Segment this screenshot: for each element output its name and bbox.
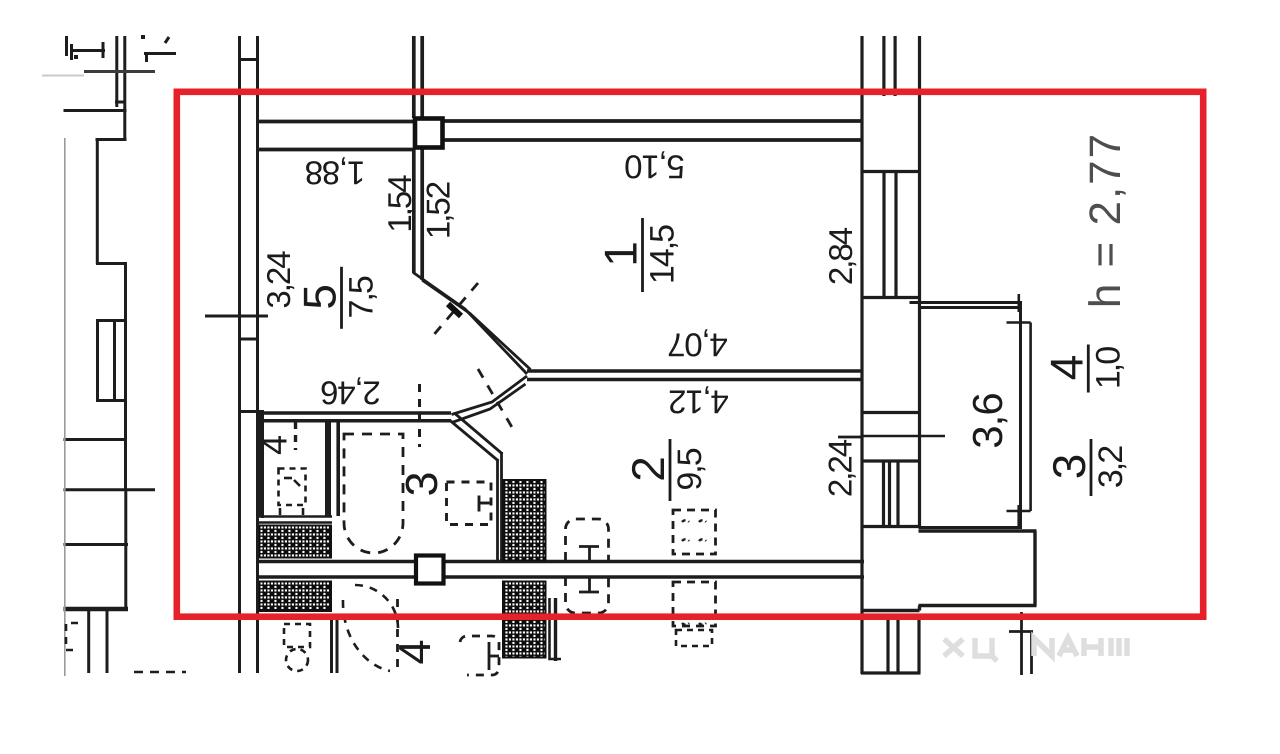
- svg-text:h = 2,77: h = 2,77: [1081, 132, 1130, 308]
- svg-text:4: 4: [254, 436, 295, 455]
- svg-text:5: 5: [294, 286, 346, 310]
- node: door arc dashed room3: [355, 585, 398, 628]
- node: top-left dimension mark 1: [67, 36, 106, 60]
- svg-text:9,5: 9,5: [671, 448, 709, 490]
- wall: upper diagonal double: [413, 273, 527, 375]
- node: toilet mirror lower: [460, 636, 499, 675]
- shaft H1 border: [259, 517, 332, 523]
- node: washbasin with tap: [566, 519, 609, 561]
- wall: step down: [96, 138, 127, 141]
- wall: stub below corridor wall right of shaft: [554, 598, 557, 661]
- shaft H4: [503, 582, 546, 658]
- node: lower door leaf dashed: [396, 599, 399, 672]
- node: dark blob at crossing: [448, 304, 461, 316]
- node: wc sink dashed: [279, 469, 306, 506]
- svg-text:4,07: 4,07: [668, 326, 727, 363]
- window 1 inner verticals: [882, 172, 885, 297]
- svg-text:1,0: 1,0: [1089, 347, 1127, 389]
- node: bathtub dashed: [344, 434, 403, 553]
- svg-text:4: 4: [389, 641, 440, 665]
- window 1 sills: [862, 170, 920, 173]
- svg-text:2,24: 2,24: [822, 439, 859, 497]
- svg-text:1,88: 1,88: [306, 154, 365, 191]
- shaft H3: [503, 480, 546, 561]
- wall: bathroom left wall: [336, 421, 340, 516]
- wall: big right line: [918, 36, 921, 528]
- wall: big left line: [860, 36, 863, 674]
- node: dimension T marks right: [1009, 505, 1033, 675]
- svg-text:3,24: 3,24: [260, 251, 297, 309]
- svg-text:5,10: 5,10: [624, 148, 684, 185]
- label 4/1,0: [1040, 345, 1127, 393]
- svg-text:2,46: 2,46: [321, 374, 380, 411]
- wall: step horizontal: [64, 109, 127, 112]
- label 1/14,5: [595, 218, 682, 292]
- node: stove dashed: [673, 510, 716, 554]
- wall: left stair double vertical top: [115, 36, 118, 107]
- label 2/9,5: [622, 439, 709, 501]
- node: dashed door bathroom: [418, 384, 421, 447]
- svg-text:3,6: 3,6: [964, 393, 1011, 448]
- svg-text:3: 3: [396, 473, 447, 497]
- svg-text:1: 1: [595, 243, 647, 267]
- node: shaft outline L marks: [550, 598, 562, 659]
- wall: thickened part below: [261, 412, 264, 518]
- node: dimension tick 3.24: [205, 315, 268, 318]
- node: dashed opening across upper diagonal: [431, 283, 478, 338]
- window 2 sills: [862, 411, 920, 414]
- node: sink mirror: [676, 630, 712, 646]
- svg-text:2: 2: [622, 458, 674, 482]
- svg-text:1,52: 1,52: [420, 182, 457, 239]
- wire: dashed bottom line: [134, 671, 186, 674]
- svg-text:3,2: 3,2: [1092, 446, 1130, 488]
- window 2 inner verticals: [882, 461, 885, 526]
- window niche rectangle: [98, 321, 126, 401]
- wall: top wall of room 1 double: [443, 119, 862, 123]
- wall: double wall below red: [332, 619, 338, 673]
- node: stove mirror: [673, 582, 716, 626]
- wire: faint left scan edge: [64, 138, 66, 676]
- label 5/7,5: [294, 267, 381, 329]
- svg-text:3: 3: [1043, 455, 1095, 479]
- column at top wall: [415, 119, 443, 148]
- node: toilet dashed: [447, 482, 492, 525]
- wall: middle diagonal down-left double: [452, 376, 528, 415]
- column on corridor wall: [416, 556, 444, 584]
- wall: vertical double above column: [412, 36, 416, 118]
- wall: vertical double below column: [412, 148, 416, 273]
- wire: light horizontal crossing top left: [84, 70, 155, 73]
- svg-text:14,5: 14,5: [644, 225, 682, 284]
- shaft H2: [260, 582, 332, 612]
- wall: vertical to shaft: [496, 459, 499, 561]
- label 3/3,2: [1043, 439, 1130, 496]
- svg-text:2,84: 2,84: [822, 227, 859, 285]
- node: top-left dimension mark 2: [141, 35, 176, 62]
- wire: connectors: [238, 58, 259, 61]
- node: bottom-left dashed cabinet: [66, 623, 78, 650]
- node: washbasin mirror: [566, 577, 609, 613]
- node: lower door arc dashed: [343, 600, 390, 671]
- svg-text:1,54: 1,54: [381, 175, 418, 233]
- node: dashed door line wc: [294, 422, 297, 450]
- svg-text:4,12: 4,12: [669, 383, 728, 420]
- wall: shaft inner verticals top: [882, 36, 885, 96]
- wall: lower diagonal to shaft double: [450, 421, 499, 462]
- svg-text:4: 4: [1040, 355, 1092, 380]
- wall: bathroom top double: [259, 411, 451, 415]
- node: dimension tick for 2.24: [838, 436, 862, 439]
- shaft H1: [260, 526, 332, 558]
- wall: corridor left line: [238, 36, 241, 673]
- wire: connector: [115, 101, 126, 104]
- node: dashed opening across middle diagonal: [478, 369, 513, 429]
- node: sink with circle lower left: [284, 624, 310, 671]
- svg-text:7,5: 7,5: [343, 276, 381, 318]
- wall: wc right wall: [325, 421, 331, 516]
- wall: corridor right line: [256, 36, 259, 673]
